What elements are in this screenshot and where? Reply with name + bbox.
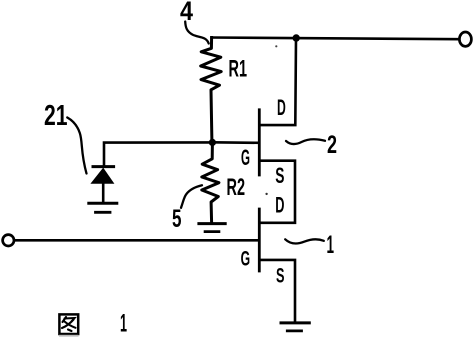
leader 21: [67, 118, 86, 174]
speck: [265, 193, 267, 195]
leader 1: [285, 239, 324, 243]
diode D21 cathode bar: [93, 165, 114, 168]
transistor Q2 channel bar: [258, 110, 261, 175]
wire source Q1 to ground: [260, 260, 295, 321]
svg-text:R2: R2: [227, 174, 246, 201]
svg-text:S: S: [275, 163, 284, 188]
svg-text:G: G: [241, 248, 251, 271]
svg-text:G: G: [241, 145, 250, 170]
svg-text:R1: R1: [229, 56, 248, 83]
resistor R1: [201, 38, 222, 142]
ground R2: [199, 222, 225, 225]
transistor Q1 channel bar: [258, 209, 261, 271]
node mid junction: [209, 139, 216, 146]
ground diode: [89, 202, 117, 205]
svg-text:5: 5: [172, 205, 182, 233]
svg-text:S: S: [276, 265, 285, 288]
svg-text:2: 2: [327, 131, 337, 159]
terminal top-right: [459, 32, 471, 46]
wire gate Q1 from input terminal: [15, 239, 259, 242]
wire top rail: [212, 38, 459, 40]
terminal input left: [3, 235, 14, 246]
wire source Q2 to drain Q1: [260, 161, 295, 223]
resistor R2: [202, 143, 219, 223]
leader 5: [181, 185, 202, 208]
leader 4: [185, 22, 209, 44]
node top junction: [293, 34, 300, 41]
svg-text:1: 1: [327, 231, 335, 259]
wire drain of U2 from top rail: [260, 38, 296, 125]
svg-text:4: 4: [180, 0, 193, 26]
wire gate Q2: [212, 141, 258, 144]
speck: [275, 45, 277, 47]
wire mid to diode: [104, 142, 212, 165]
svg-text:1: 1: [120, 310, 127, 337]
svg-text:D: D: [277, 95, 286, 120]
svg-text:D: D: [275, 193, 284, 218]
diode D21 triangle: [90, 168, 114, 184]
leader 2: [286, 139, 325, 144]
svg-text:21: 21: [44, 100, 68, 132]
figure label box (tu character): [59, 314, 79, 336]
ground Q1: [281, 321, 309, 324]
wire diode anode to ground: [102, 183, 105, 202]
